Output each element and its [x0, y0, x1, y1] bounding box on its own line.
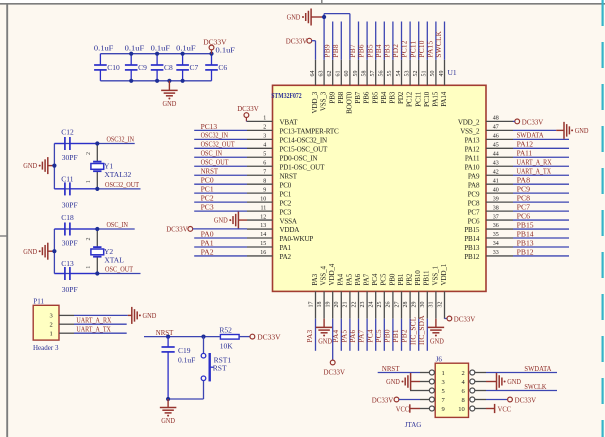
- svg-text:GND: GND: [575, 127, 589, 135]
- pin 10 PC2 of U1: [247, 201, 273, 203]
- svg-text:GND: GND: [161, 417, 175, 425]
- svg-text:15: 15: [260, 241, 266, 247]
- svg-text:6: 6: [263, 160, 266, 166]
- svg-text:47: 47: [493, 125, 499, 131]
- svg-text:PC3: PC3: [280, 208, 292, 216]
- mcu U1 body: [273, 85, 487, 291]
- pin 9 of J6: [420, 408, 429, 410]
- svg-text:PB6: PB6: [363, 91, 371, 103]
- svg-text:PC12: PC12: [406, 91, 414, 107]
- svg-text:STM32F072: STM32F072: [271, 92, 302, 100]
- junction: [209, 52, 213, 56]
- wire PB9 pin62: [332, 22, 334, 60]
- svg-text:PA11: PA11: [517, 149, 533, 158]
- svg-text:48: 48: [493, 116, 499, 122]
- svg-text:PB14: PB14: [464, 235, 480, 243]
- pin 32 VDD_1 of U1: [444, 291, 446, 318]
- power DC33V pin19: [332, 319, 334, 360]
- pin 1 of J6: [420, 372, 429, 374]
- pin 52 PC11 of U1: [418, 60, 420, 86]
- pin 24 PC4 of U1: [375, 291, 377, 318]
- junction: [166, 335, 170, 339]
- svg-text:PB13: PB13: [517, 238, 534, 247]
- sheet border top: [0, 3, 605, 5]
- connector P11 body: [33, 305, 59, 340]
- pin 53 PC12 of U1: [409, 60, 411, 86]
- wire R52 to DC33V: [239, 336, 250, 338]
- svg-text:10: 10: [260, 196, 266, 202]
- svg-text:46: 46: [493, 134, 499, 140]
- svg-text:PC5: PC5: [380, 273, 388, 285]
- wire PB13 pin34: [513, 246, 569, 248]
- svg-text:2: 2: [263, 125, 266, 131]
- svg-text:SWDATA: SWDATA: [517, 131, 545, 140]
- svg-text:52: 52: [413, 71, 419, 77]
- svg-text:PB3: PB3: [389, 91, 397, 103]
- wire PA8 pin41: [513, 183, 569, 185]
- svg-text:PA8: PA8: [468, 181, 480, 189]
- svg-text:PA1: PA1: [280, 244, 292, 252]
- power DC33V pin32: [445, 318, 448, 320]
- svg-text:DC33V: DC33V: [286, 37, 308, 46]
- junction: [52, 164, 56, 168]
- svg-text:61: 61: [336, 71, 342, 77]
- sheet border tick top: [321, 0, 323, 4]
- svg-text:NRST: NRST: [201, 167, 219, 176]
- wire PC2 pin10: [194, 201, 247, 203]
- power DC33V reset: [250, 334, 255, 339]
- svg-text:DC33V: DC33V: [203, 37, 227, 46]
- wire PC5 pin25: [383, 319, 385, 351]
- pin 20 PA4 of U1: [340, 291, 342, 318]
- svg-text:C9: C9: [138, 63, 147, 72]
- wire J6 pin5: [410, 390, 420, 392]
- svg-text:PA9: PA9: [468, 172, 480, 180]
- pin 12 VSSA of U1: [247, 219, 273, 221]
- svg-text:7: 7: [263, 169, 266, 175]
- svg-text:DC33V: DC33V: [454, 314, 476, 323]
- svg-text:PC13-TAMPER-RTC: PC13-TAMPER-RTC: [280, 128, 340, 136]
- svg-text:VDD_2: VDD_2: [458, 119, 480, 127]
- svg-text:NRST: NRST: [382, 364, 400, 373]
- pin 8 of J6: [475, 399, 486, 401]
- wire PC4 pin24: [375, 319, 377, 351]
- pin 29 PB10 of U1: [418, 291, 420, 318]
- wire PC12 pin53: [409, 22, 411, 60]
- svg-text:PA5: PA5: [345, 273, 353, 285]
- wire PC0 pin8: [194, 183, 247, 185]
- pin 44 PA11 of U1: [486, 156, 513, 158]
- svg-text:VDD_4: VDD_4: [328, 263, 336, 285]
- svg-text:OSC_OUT: OSC_OUT: [105, 265, 133, 274]
- pin 48 VDD_2 of U1: [486, 120, 513, 122]
- svg-text:2: 2: [50, 322, 53, 329]
- svg-text:PA13: PA13: [465, 137, 480, 145]
- pin 16 PA2 of U1: [247, 255, 273, 257]
- svg-text:PA2: PA2: [280, 253, 292, 261]
- wire cap bank top rail: [100, 53, 211, 55]
- lead: [128, 314, 132, 316]
- pin 62 PB9 of U1: [332, 60, 334, 86]
- pin 31 VSS_1 of U1: [435, 291, 437, 318]
- svg-text:GND: GND: [143, 312, 157, 320]
- svg-text:C6: C6: [218, 63, 227, 72]
- pin 7 NRST of U1: [247, 174, 273, 176]
- svg-text:24: 24: [369, 302, 375, 308]
- wire osc out: [54, 273, 140, 275]
- svg-text:PC7: PC7: [468, 208, 480, 216]
- svg-text:NRST: NRST: [280, 172, 298, 180]
- wire gnd rail pin63: [323, 14, 325, 60]
- capacitor C6: [211, 54, 213, 65]
- svg-text:DC33V: DC33V: [237, 104, 259, 113]
- wire PB5 pin57: [375, 22, 377, 60]
- junction: [166, 397, 170, 401]
- pin 34 PB13 of U1: [486, 246, 513, 248]
- junction: [95, 141, 99, 145]
- svg-text:13: 13: [260, 223, 266, 229]
- svg-text:35: 35: [493, 232, 499, 238]
- svg-text:PD1-OSC_OUT: PD1-OSC_OUT: [280, 163, 326, 171]
- ground J6 pin3: [410, 373, 412, 390]
- svg-text:30PF: 30PF: [62, 153, 78, 162]
- svg-text:GND: GND: [23, 248, 37, 256]
- svg-text:PA8: PA8: [517, 176, 531, 185]
- svg-text:VDDA: VDDA: [280, 226, 301, 234]
- svg-text:55: 55: [387, 71, 393, 77]
- pin 49 PA14 of U1: [444, 60, 446, 86]
- svg-text:U1: U1: [448, 68, 457, 77]
- svg-text:14: 14: [260, 232, 266, 238]
- svg-text:0.1uF: 0.1uF: [178, 355, 195, 364]
- svg-text:XTAL32: XTAL32: [104, 170, 131, 179]
- capacitor C19: [167, 337, 169, 347]
- pin 55 PB3 of U1: [392, 60, 394, 86]
- wire PB8 pin61: [340, 22, 342, 60]
- svg-text:23: 23: [360, 302, 366, 308]
- ground P11: [131, 307, 133, 324]
- svg-text:UART_A_RX: UART_A_RX: [76, 316, 112, 325]
- svg-text:GND: GND: [507, 378, 521, 386]
- svg-text:20: 20: [334, 302, 340, 308]
- svg-text:PC7: PC7: [517, 203, 531, 212]
- wire PA11 pin44: [513, 156, 569, 158]
- wire PC10 pin51: [426, 22, 428, 60]
- svg-text:C12: C12: [61, 128, 74, 137]
- svg-text:PC8: PC8: [517, 194, 531, 203]
- svg-text:PA12: PA12: [517, 140, 534, 149]
- wire IIC_SDA pin30: [426, 319, 428, 351]
- wire PB6 pin58: [366, 22, 368, 60]
- pin 8 PC0 of U1: [247, 183, 273, 185]
- wire PA7 pin23: [366, 319, 368, 351]
- pin 54 PD2 of U1: [401, 60, 403, 86]
- pin 40 PC9 of U1: [486, 192, 513, 194]
- pin 28 PB2 of U1: [409, 291, 411, 318]
- svg-text:PC9: PC9: [517, 185, 531, 194]
- pin 50 PA15 of U1: [435, 60, 437, 86]
- svg-text:2: 2: [86, 152, 92, 155]
- svg-text:OSC_OUT: OSC_OUT: [201, 158, 229, 167]
- svg-text:SWCLK: SWCLK: [524, 382, 547, 391]
- svg-text:1: 1: [263, 116, 266, 122]
- ground VSS_1 pin31: [435, 319, 437, 328]
- pin 10 of J6: [475, 408, 486, 410]
- svg-text:57: 57: [370, 71, 376, 77]
- svg-text:PB13: PB13: [464, 244, 480, 252]
- wire PC8 pin39: [513, 201, 569, 203]
- svg-text:R52: R52: [219, 325, 232, 334]
- svg-text:GND: GND: [318, 338, 332, 346]
- svg-text:16: 16: [260, 250, 266, 256]
- svg-text:43: 43: [493, 160, 499, 166]
- svg-text:12: 12: [260, 214, 266, 220]
- capacitor C13: [54, 273, 65, 275]
- wire PC9 pin40: [513, 192, 569, 194]
- junction: [52, 249, 56, 253]
- svg-text:PC1: PC1: [280, 190, 292, 198]
- svg-text:GND: GND: [163, 100, 177, 108]
- wire UART_A_RX pin43: [513, 165, 569, 167]
- wire osc32 out: [54, 188, 140, 190]
- svg-text:0.1uF: 0.1uF: [151, 44, 171, 53]
- capacitor C18: [54, 228, 65, 230]
- capacitor C12: [54, 143, 65, 145]
- svg-text:PA14: PA14: [440, 91, 448, 107]
- svg-text:38: 38: [493, 205, 499, 211]
- svg-text:19: 19: [326, 302, 332, 308]
- svg-text:PA6: PA6: [354, 273, 362, 285]
- svg-text:17: 17: [308, 302, 314, 308]
- svg-text:VDD_1: VDD_1: [440, 263, 448, 285]
- svg-text:GND: GND: [23, 162, 37, 170]
- wire PA0 pin14: [194, 237, 247, 239]
- wire PA1 pin15: [194, 246, 247, 248]
- junction: [181, 52, 185, 56]
- wire IIC_SCL pin29: [418, 319, 420, 351]
- wire osc left rail: [53, 229, 55, 274]
- wire PA15 pin50: [435, 22, 437, 60]
- junction: [155, 52, 159, 56]
- pin 4 PC15-OSC_OUT of U1: [247, 147, 273, 149]
- wire PB12 pin33: [513, 255, 569, 257]
- svg-text:PB12: PB12: [517, 247, 534, 256]
- svg-text:50: 50: [430, 71, 436, 77]
- svg-text:SWCLK: SWCLK: [434, 30, 443, 57]
- wire osc32 left rail: [53, 144, 55, 189]
- svg-text:11: 11: [261, 205, 267, 211]
- wire PB2 pin28: [409, 319, 411, 351]
- pin 13 VDDA of U1: [247, 228, 273, 230]
- svg-text:C7: C7: [190, 63, 199, 72]
- wire PB7 pin59: [358, 22, 360, 60]
- svg-text:VDD_3: VDD_3: [311, 91, 319, 113]
- svg-text:C13: C13: [61, 259, 74, 268]
- svg-text:25: 25: [377, 302, 383, 308]
- wire NRST J6: [378, 372, 420, 374]
- svg-text:PC6: PC6: [517, 211, 531, 220]
- svg-text:31: 31: [429, 302, 435, 308]
- svg-text:1: 1: [442, 370, 445, 377]
- pin 3 PC14-OSC32_IN of U1: [247, 138, 273, 140]
- sheet edge dashes right: [601, 0, 603, 437]
- capacitor C10: [99, 54, 101, 65]
- pin 15 PA1 of U1: [247, 246, 273, 248]
- pin 5 of J6: [420, 390, 429, 392]
- svg-text:8: 8: [263, 178, 266, 184]
- svg-text:PC10: PC10: [423, 91, 431, 107]
- pin 35 PB14 of U1: [486, 237, 513, 239]
- svg-text:PC9: PC9: [468, 190, 480, 198]
- svg-text:3: 3: [50, 313, 53, 320]
- pin 63 VSS_3 of U1: [323, 60, 325, 86]
- svg-text:PC11: PC11: [414, 91, 422, 107]
- svg-text:32: 32: [437, 302, 443, 308]
- ground VSS_2 pin47: [556, 129, 564, 131]
- svg-text:PB4: PB4: [380, 91, 388, 103]
- pin 30 PB11 of U1: [426, 291, 428, 318]
- svg-text:4: 4: [263, 143, 266, 149]
- svg-text:22: 22: [351, 302, 357, 308]
- pin 17 PA3 of U1: [315, 291, 317, 318]
- svg-text:PC1: PC1: [201, 185, 214, 194]
- svg-text:39: 39: [493, 196, 499, 202]
- svg-text:VCC: VCC: [498, 404, 512, 413]
- svg-text:PC3: PC3: [201, 203, 214, 212]
- wire PA2 pin16: [194, 255, 247, 257]
- svg-text:28: 28: [403, 302, 409, 308]
- pin 22 PA6 of U1: [358, 291, 360, 318]
- svg-text:64: 64: [310, 71, 316, 77]
- svg-text:2: 2: [462, 370, 465, 377]
- svg-text:29: 29: [412, 302, 418, 308]
- svg-text:C8: C8: [164, 63, 173, 72]
- svg-text:PB15: PB15: [464, 226, 480, 234]
- pin 39 PC8 of U1: [486, 201, 513, 203]
- svg-text:PB14: PB14: [517, 229, 534, 238]
- wire PA6 pin22: [358, 319, 360, 351]
- svg-text:PB15: PB15: [517, 220, 534, 229]
- ground osc32: [48, 165, 55, 167]
- pin 11 PC3 of U1: [247, 210, 273, 212]
- junction: [129, 52, 133, 56]
- svg-text:GND: GND: [214, 217, 228, 225]
- svg-text:1: 1: [86, 266, 92, 269]
- lead gnd top: [311, 16, 324, 18]
- svg-text:PB10: PB10: [414, 270, 422, 286]
- svg-text:1: 1: [50, 331, 53, 338]
- wire PC7 pin38: [513, 210, 569, 212]
- svg-text:PA1: PA1: [201, 238, 214, 247]
- svg-text:C11: C11: [61, 174, 73, 183]
- capacitor C8: [156, 54, 158, 65]
- wire UART_A_RX: [74, 323, 127, 325]
- svg-text:XTAL: XTAL: [104, 255, 124, 264]
- pin 2 of J6: [475, 372, 486, 374]
- pin 3 of J6: [420, 381, 429, 383]
- svg-text:30: 30: [420, 302, 426, 308]
- svg-text:54: 54: [396, 71, 402, 77]
- svg-text:PA7: PA7: [363, 273, 371, 285]
- svg-text:59: 59: [353, 71, 359, 77]
- svg-text:VSSA: VSSA: [280, 217, 298, 225]
- ground reset: [160, 407, 177, 409]
- pin 56 PB4 of U1: [383, 60, 385, 86]
- svg-text:PC2: PC2: [280, 199, 292, 207]
- svg-text:PA3: PA3: [305, 329, 314, 342]
- svg-text:21: 21: [343, 302, 349, 308]
- pin 37 PC6 of U1: [486, 219, 513, 221]
- svg-text:DC33V: DC33V: [166, 225, 188, 234]
- svg-text:44: 44: [493, 151, 499, 157]
- pin 1 VBAT of U1: [247, 120, 273, 122]
- svg-text:PC0: PC0: [201, 176, 214, 185]
- svg-text:60: 60: [344, 71, 350, 77]
- svg-text:33: 33: [493, 250, 499, 256]
- wire PB1 pin27: [401, 319, 403, 351]
- svg-text:63: 63: [318, 71, 324, 77]
- svg-text:1: 1: [86, 180, 92, 183]
- svg-text:OSC32_OUT: OSC32_OUT: [105, 180, 139, 189]
- svg-text:PD0-OSC_IN: PD0-OSC_IN: [280, 154, 318, 162]
- wire PC11 pin52: [418, 22, 420, 60]
- pin 21 PA5 of U1: [349, 291, 351, 318]
- svg-text:PC14-OSC32_IN: PC14-OSC32_IN: [280, 137, 328, 145]
- pin 57 PB5 of U1: [375, 60, 377, 86]
- svg-text:DC33V: DC33V: [522, 117, 544, 126]
- wire UART_A_TX pin42: [513, 174, 569, 176]
- svg-text:PA11: PA11: [465, 154, 480, 162]
- wire PB15 pin36: [513, 228, 569, 230]
- wire PC3 pin11: [194, 210, 247, 212]
- power DC33V J6 pin8: [486, 399, 508, 401]
- wire SWCLK: [486, 390, 557, 392]
- capacitor C9: [130, 54, 132, 65]
- svg-text:PB8: PB8: [331, 44, 340, 57]
- svg-text:DC33V: DC33V: [372, 395, 394, 404]
- crystal Y1: [96, 144, 98, 162]
- svg-text:PA2: PA2: [201, 247, 214, 256]
- svg-text:0.1uF: 0.1uF: [216, 46, 236, 55]
- svg-text:VBAT: VBAT: [280, 119, 299, 127]
- pin 61 PB8 of U1: [340, 60, 342, 86]
- svg-text:OSC_IN: OSC_IN: [107, 220, 129, 229]
- wire PB3 pin55: [392, 22, 394, 60]
- svg-text:30PF: 30PF: [62, 238, 78, 247]
- svg-text:18: 18: [317, 302, 323, 308]
- svg-text:2: 2: [86, 238, 92, 241]
- svg-text:45: 45: [493, 143, 499, 149]
- pin 64 VDD_3 of U1: [315, 60, 317, 86]
- svg-text:GND: GND: [386, 378, 400, 386]
- svg-text:53: 53: [404, 71, 410, 77]
- sheet border tick left: [0, 235, 7, 237]
- svg-text:PB1: PB1: [397, 273, 405, 285]
- wire OSC32_OUT pin4: [194, 147, 247, 149]
- pin 45 PA12 of U1: [486, 147, 513, 149]
- wire cap bank bottom rail: [100, 80, 211, 82]
- pin 5 PD0-OSC_IN of U1: [247, 156, 273, 158]
- svg-text:PB5: PB5: [371, 91, 379, 103]
- capacitor C7: [182, 54, 184, 65]
- wire OSC_IN pin5: [194, 156, 247, 158]
- junction: [95, 227, 99, 231]
- svg-text:42: 42: [493, 169, 499, 175]
- wire PA5 pin21: [349, 319, 351, 351]
- svg-text:VSS_3: VSS_3: [320, 91, 328, 111]
- pin 2 PC13-TAMPER-RTC of U1: [247, 129, 273, 131]
- svg-text:PB8: PB8: [337, 91, 345, 103]
